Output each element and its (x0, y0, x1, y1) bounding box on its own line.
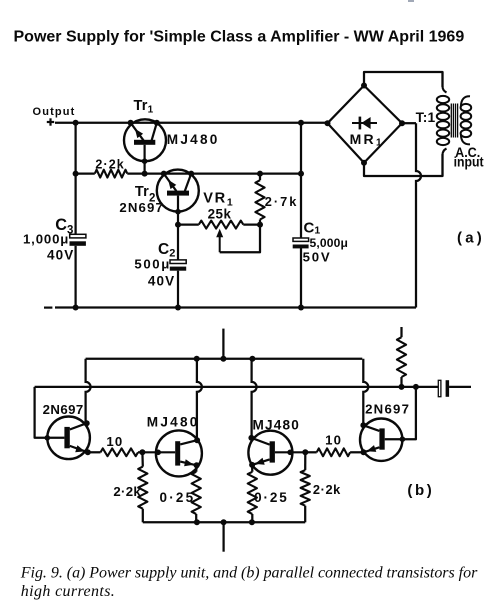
label MJ480 left (147, 414, 200, 429)
wire bridge top to transformer (364, 72, 443, 87)
output minus sign (44, 307, 52, 309)
svg-text:(a): (a) (457, 230, 485, 247)
label 10 left (106, 434, 123, 449)
transistor 2N697 right (360, 419, 405, 461)
label 0.25 right (254, 490, 289, 505)
svg-text:10: 10 (325, 433, 342, 448)
wire 2N697-left collector riser (jog) (86, 359, 91, 424)
wire VR1 right to 2.7k node (243, 222, 263, 228)
wire bottom rail (-) of (a) (55, 306, 416, 308)
label 2N697 right (365, 401, 410, 416)
capacitor coupling (b) (438, 380, 471, 397)
svg-text:Tr1: Tr1 (134, 98, 154, 116)
label A.C. (455, 145, 480, 160)
label 40V (C3) (47, 247, 74, 262)
label MJ480 right (253, 418, 301, 433)
label 2N697 left (43, 402, 84, 417)
label Tr1 (134, 98, 154, 116)
output terminal label (33, 106, 76, 118)
transistor 2N697 left (45, 417, 91, 460)
label 500u (134, 257, 170, 272)
wire bridge bottom to transformer (364, 154, 443, 176)
label 2.2k (95, 157, 124, 171)
svg-text:40V: 40V (47, 247, 74, 262)
transistor Tr1 (MJ480) (124, 119, 166, 176)
wire bottom stub (222, 522, 224, 551)
svg-text:25k: 25k (208, 206, 232, 221)
label (a) (457, 230, 485, 247)
svg-text:0·25: 0·25 (160, 490, 196, 505)
svg-text:C1: C1 (304, 219, 321, 236)
svg-text:50V: 50V (303, 249, 332, 264)
label 2.7k (265, 194, 299, 209)
svg-text:2·2k: 2·2k (113, 484, 141, 499)
wire top rail (+) of (a) (55, 122, 328, 124)
svg-text:Power Supply for 'Simple Class: Power Supply for 'Simple Class a Amplifi… (14, 29, 465, 46)
svg-text:2N697: 2N697 (43, 402, 84, 417)
resistor 2.2k left (b) (138, 452, 147, 522)
wire rail B (bases) (35, 384, 438, 390)
label C2 (158, 241, 175, 260)
label 40V (C2) (148, 273, 175, 288)
transformer T:1 (437, 72, 471, 176)
svg-text:2·2k: 2·2k (95, 157, 124, 171)
label MJ480 (Tr1) (167, 132, 220, 147)
svg-text:5,000μ: 5,000μ (310, 236, 349, 250)
label 10 right (325, 433, 342, 448)
svg-text:1,000μ: 1,000μ (23, 232, 69, 247)
label T:1 (416, 110, 436, 125)
label 2.2k left (b) (113, 484, 141, 499)
svg-text:0·25: 0·25 (254, 490, 289, 505)
label MR1 (350, 131, 384, 149)
capacitor C2 (170, 225, 186, 311)
resistor 2.2k right (b) (301, 452, 310, 522)
label 2.2k right (b) (313, 482, 341, 497)
wire bottom rail (b) (143, 519, 305, 525)
scan mark (408, 0, 414, 2)
svg-text:MJ480: MJ480 (253, 418, 301, 433)
transistor Tr2 (2N697) (157, 170, 199, 228)
svg-text:2N697: 2N697 (119, 200, 164, 215)
transistor MJ480 right (248, 431, 308, 475)
bridge rectifier MR1 (325, 83, 406, 166)
label 25k (208, 206, 232, 221)
svg-text:MJ480: MJ480 (167, 132, 220, 147)
wire MJ480-right collector riser (jog) (252, 359, 257, 438)
label 1,000u (23, 232, 69, 247)
resistor 0.25 right (248, 465, 257, 522)
resistor 2.2k (95, 170, 128, 178)
svg-text:2·7k: 2·7k (265, 194, 299, 209)
label C3 (55, 216, 73, 237)
svg-text:40V: 40V (148, 273, 175, 288)
caption line 2 (21, 583, 115, 600)
resistor 2.7k (255, 171, 264, 225)
VR1 wiper arm (216, 225, 260, 253)
transistor MJ480 left (142, 430, 202, 476)
label 5,000u (310, 236, 349, 250)
svg-text:T:1: T:1 (416, 110, 436, 125)
label C1 (304, 219, 321, 236)
svg-text:MJ480: MJ480 (147, 414, 200, 429)
svg-text:10: 10 (106, 434, 123, 449)
wire 2N697-right base to rail B (385, 387, 416, 439)
svg-text:high currents.: high currents. (21, 583, 115, 600)
wire rail A (collectors) (86, 356, 363, 362)
caption line 1 (20, 565, 478, 582)
label 50V (C1) (303, 249, 332, 264)
wire base bus y=173 (76, 171, 304, 177)
svg-text:Output: Output (33, 106, 76, 118)
svg-text:Fig. 9. (a) Power supply unit,: Fig. 9. (a) Power supply unit, and (b) p… (20, 565, 478, 582)
label 2N697 (Tr2) (119, 200, 164, 215)
wire top stub (222, 329, 224, 359)
svg-text:MR1: MR1 (350, 131, 384, 149)
wire left rail with node dots (73, 120, 79, 311)
capacitor C1 (293, 238, 309, 248)
wire C1 branch (298, 120, 304, 311)
wire emitter to 10-left (88, 451, 101, 453)
resistor 0.25 left (192, 465, 201, 525)
svg-text:500μ: 500μ (134, 257, 170, 272)
wire MJ480-left collector riser (jog) (197, 359, 202, 440)
output plus sign (47, 118, 54, 125)
resistor stub (b) (397, 327, 406, 387)
label 0.25 left (160, 490, 196, 505)
svg-text:(b): (b) (407, 482, 434, 499)
label Tr2 (135, 184, 156, 205)
wire bridge DC- down (jog crossing) (402, 123, 421, 307)
wire 2N697-right collector riser (jog) (363, 359, 368, 426)
svg-text:2·2k: 2·2k (313, 482, 341, 497)
label input (454, 154, 484, 169)
svg-text:input: input (454, 154, 484, 169)
resistor 10 left (101, 448, 139, 456)
svg-text:2N697: 2N697 (365, 401, 410, 416)
resistor 10 right (305, 448, 363, 456)
label (b) (407, 482, 434, 499)
potentiometer VR1 25k track (199, 221, 244, 229)
wire 10-left to base node (138, 449, 145, 455)
capacitor C3 (70, 234, 86, 246)
label VR1 (203, 190, 234, 208)
title text (14, 29, 465, 46)
wire Tr2 base to VR1 (178, 223, 199, 225)
wire 2N697-left base (35, 387, 65, 438)
